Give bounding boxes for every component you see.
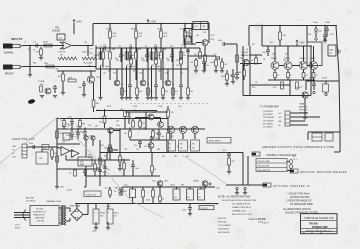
power +24V TR1 bbox=[73, 20, 82, 24]
ground note a bbox=[235, 187, 239, 195]
label 100Ku bbox=[106, 29, 113, 31]
triangle TR9b bbox=[72, 150, 80, 157]
svg-text:1K0: 1K0 bbox=[165, 91, 168, 93]
wire volume drop bbox=[87, 45, 88, 56]
resistor emitter Q2 bbox=[287, 70, 293, 81]
transistor TR16 bbox=[144, 136, 154, 153]
svg-text:100u: 100u bbox=[318, 31, 322, 33]
wire diode drop bbox=[86, 140, 93, 157]
wire q12 join bbox=[279, 65, 310, 67]
box MOD SER bbox=[207, 138, 231, 144]
resistor pac 3 bbox=[139, 118, 145, 129]
svg-text:2: RESISTOR MADE UP: 2: RESISTOR MADE UP bbox=[286, 200, 312, 203]
wire TR2 up bbox=[116, 69, 118, 80]
wire pa main low rail bbox=[100, 152, 243, 154]
wire stage2 col B bbox=[135, 38, 136, 80]
label pa extra2 bbox=[62, 142, 91, 157]
wire pa v100 bbox=[99, 140, 101, 186]
svg-text:10u: 10u bbox=[129, 45, 132, 47]
svg-text:2N3055: 2N3055 bbox=[310, 58, 316, 60]
wire driver to Q bbox=[249, 63, 262, 65]
resistor psu x1 bbox=[159, 196, 165, 204]
svg-text:COM: COM bbox=[154, 51, 159, 53]
wire psu left drop bbox=[120, 187, 124, 196]
wire NFB down bbox=[85, 166, 87, 176]
svg-text:+40V: +40V bbox=[299, 42, 305, 45]
svg-text:4700u: 4700u bbox=[114, 213, 119, 215]
wire pa mid rail bbox=[66, 159, 112, 161]
wire emitter join bbox=[268, 79, 315, 81]
svg-text:100Ku: 100Ku bbox=[106, 29, 113, 31]
label mains V bbox=[15, 225, 21, 230]
ground stage1 E bbox=[135, 98, 139, 100]
svg-text:TR6 2N5088: TR6 2N5088 bbox=[263, 117, 274, 119]
label B47 bbox=[105, 187, 121, 190]
transistor TR8A bbox=[302, 92, 308, 98]
resistor stage3 D bbox=[180, 52, 186, 59]
wire TRO3 down bbox=[194, 133, 196, 152]
resistor pa u1 bbox=[63, 119, 69, 130]
resistor pre z1 bbox=[98, 48, 104, 68]
ground R2 bbox=[39, 58, 43, 60]
label smudges gnd row bbox=[107, 106, 181, 108]
svg-text:10u: 10u bbox=[43, 147, 46, 149]
svg-text:Q1 MJ2955: Q1 MJ2955 bbox=[263, 111, 273, 113]
resistor psu b bbox=[142, 187, 155, 204]
svg-text:3K9: 3K9 bbox=[167, 60, 170, 62]
label psu extra bbox=[124, 185, 185, 187]
transistor TRO1 bbox=[167, 126, 174, 133]
box spk wiring bbox=[256, 159, 287, 172]
svg-text:100u: 100u bbox=[71, 136, 75, 138]
resistor pa u2 bbox=[79, 119, 85, 130]
wire sp h48b bbox=[184, 47, 200, 49]
svg-text:TRANSISTOR: TRANSISTOR bbox=[33, 214, 45, 217]
svg-text:2-6273: 2-6273 bbox=[262, 223, 269, 225]
svg-text:*: * bbox=[73, 147, 74, 149]
svg-text:5% CARBON FILM: 5% CARBON FILM bbox=[232, 203, 250, 206]
wire rm bottom drop bbox=[307, 132, 309, 140]
transistor TR2 bbox=[87, 76, 100, 83]
label BRIGHT bbox=[5, 74, 14, 76]
svg-text:C20: C20 bbox=[76, 126, 79, 128]
resistor pac 9 bbox=[151, 162, 157, 176]
resistor 4K7 spk bbox=[228, 158, 235, 171]
jack monitor bbox=[290, 169, 298, 173]
ground stage1 C bbox=[120, 98, 124, 100]
wire mains 1 bbox=[14, 212, 30, 214]
capacitor sp d1 bbox=[182, 48, 190, 56]
label 0.47 a bbox=[177, 146, 179, 148]
wire splitter drop bbox=[191, 23, 192, 45]
wire stage2 col D bbox=[155, 48, 157, 85]
svg-text:TR10A: TR10A bbox=[38, 80, 45, 83]
capacitor C51 1000u bbox=[198, 189, 205, 200]
capacitor TR10A bbox=[53, 85, 57, 93]
svg-text:D2 1N4001: D2 1N4001 bbox=[263, 127, 273, 129]
svg-text:150: 150 bbox=[88, 125, 91, 127]
svg-text:Q2 2N3055: Q2 2N3055 bbox=[263, 114, 273, 116]
capacitor pac 8 bbox=[131, 160, 139, 176]
svg-text:15K: 15K bbox=[163, 33, 167, 35]
wire bus left drop bbox=[92, 24, 94, 46]
wire pa input bbox=[27, 146, 57, 148]
wire xfmr out a bbox=[66, 208, 70, 212]
wire preamp rail 2 bbox=[96, 47, 188, 49]
text notes right bbox=[283, 193, 318, 215]
svg-text:10u: 10u bbox=[107, 169, 110, 171]
wire pa left drop top bbox=[56, 119, 58, 130]
wire input drop bbox=[29, 45, 30, 74]
wire driver rail bbox=[230, 73, 239, 80]
transistor TR6 driver bbox=[241, 46, 249, 66]
svg-text:234: 234 bbox=[192, 148, 195, 150]
wire diode top rail bbox=[57, 143, 80, 145]
label 470R rm bbox=[322, 78, 327, 80]
wire spk h152 bbox=[334, 151, 340, 153]
wire stage1 col A bbox=[100, 48, 102, 97]
label TR1 bbox=[52, 28, 61, 33]
wire TR1 base in bbox=[52, 45, 64, 47]
svg-text:1000u: 1000u bbox=[170, 185, 175, 187]
svg-text:1M2: 1M2 bbox=[55, 69, 58, 71]
wire driver drop bbox=[236, 44, 238, 73]
wire TR1 out bbox=[72, 45, 93, 47]
capacitor C50a 1000u bbox=[173, 189, 180, 200]
label rail values 2 bbox=[104, 51, 182, 53]
svg-text:4K7: 4K7 bbox=[252, 44, 255, 46]
label out extra bbox=[246, 44, 286, 62]
resistor stage1 C bbox=[121, 88, 127, 95]
svg-text:100n: 100n bbox=[78, 87, 82, 89]
svg-text:ALL RESISTORS 1/2W 5%: ALL RESISTORS 1/2W 5% bbox=[283, 208, 311, 211]
wire pa 137 rail bbox=[130, 139, 166, 141]
svg-text:R44: R44 bbox=[104, 156, 107, 158]
svg-text:TR6905: TR6905 bbox=[241, 52, 249, 54]
wire psu bus bbox=[75, 203, 218, 205]
label pots extra bbox=[58, 52, 91, 54]
capacitor pa a bbox=[66, 128, 74, 141]
label INPUTS bbox=[11, 37, 22, 41]
svg-text:+27V: +27V bbox=[210, 35, 215, 37]
svg-text:160R: 160R bbox=[325, 22, 330, 24]
wire psu top rail bbox=[122, 186, 215, 188]
svg-text:10K: 10K bbox=[138, 33, 142, 35]
ground TR10A a bbox=[40, 96, 44, 98]
svg-text:63V: 63V bbox=[187, 197, 190, 199]
svg-text:4u7: 4u7 bbox=[102, 161, 105, 163]
label 100u tr bbox=[313, 22, 318, 24]
resistor pre y1 bbox=[126, 55, 132, 68]
svg-text:2W: 2W bbox=[329, 53, 332, 55]
capacitor C9 bypass box bbox=[193, 22, 208, 30]
svg-text:100u: 100u bbox=[262, 52, 266, 54]
wire out h55 bbox=[250, 54, 262, 56]
wire right big drop bbox=[307, 26, 340, 133]
box HUM BAL bbox=[199, 206, 214, 210]
wire output top bus bbox=[249, 25, 337, 27]
resistor sp d4 bbox=[221, 58, 227, 70]
wire stage1 col B bbox=[109, 38, 110, 80]
transistor TR10A bbox=[45, 88, 51, 94]
resistor pa v110 bbox=[104, 145, 111, 151]
resistor pa 4K7b bbox=[167, 133, 175, 153]
svg-text:EXCEPT AS NOTED: RESISTORS: EXCEPT AS NOTED: RESISTORS bbox=[222, 199, 257, 202]
svg-text:1000: 1000 bbox=[174, 197, 178, 199]
label 68R 1K0 bbox=[143, 112, 155, 130]
resistor TR10A bbox=[40, 86, 43, 92]
label pre row3 bbox=[108, 71, 161, 73]
capacitor C30 bbox=[29, 143, 35, 149]
svg-text:+42V: +42V bbox=[329, 34, 334, 36]
ground bias cap bbox=[231, 82, 235, 84]
wire output left drop bbox=[248, 26, 250, 47]
svg-text:* : ADJUST FOR 40mV: * : ADJUST FOR 40mV bbox=[286, 193, 310, 196]
svg-text:100n: 100n bbox=[66, 135, 70, 137]
svg-text:0R5: 0R5 bbox=[174, 156, 177, 158]
ground stage3 D bbox=[179, 98, 183, 100]
wire driver link bbox=[225, 43, 237, 45]
svg-text:4x25: 4x25 bbox=[124, 185, 128, 187]
wire strip out1 bbox=[290, 112, 308, 114]
wire strip out3 bbox=[290, 120, 305, 122]
label 160R tr bbox=[325, 22, 330, 24]
label 470Ku bbox=[131, 29, 138, 31]
svg-text:10u: 10u bbox=[103, 73, 106, 75]
svg-text:15K: 15K bbox=[112, 33, 116, 35]
svg-text:CERAMIC 50V: CERAMIC 50V bbox=[232, 210, 246, 213]
svg-text:OUT: OUT bbox=[278, 117, 282, 119]
wire TR1 collector up bbox=[73, 24, 75, 35]
svg-text:COM: COM bbox=[104, 51, 109, 53]
plug mains bbox=[23, 210, 26, 221]
wire TR3 up bbox=[142, 69, 144, 80]
capacitor sp d3 bbox=[214, 54, 220, 60]
resistor stage1 D bbox=[129, 52, 135, 59]
label smudges rail3 bbox=[103, 73, 183, 75]
wire TRO1 down bbox=[170, 133, 172, 152]
svg-text:BRIDGE 4A: BRIDGE 4A bbox=[70, 205, 81, 208]
svg-text:1K5: 1K5 bbox=[98, 54, 101, 56]
svg-text:COM: COM bbox=[87, 66, 92, 68]
label master block bbox=[299, 103, 308, 115]
capacitor pa b bbox=[76, 128, 80, 141]
box TRO3 part bbox=[191, 140, 200, 151]
svg-text:10u: 10u bbox=[129, 51, 132, 53]
wire bass line bbox=[30, 66, 96, 68]
svg-text:4K7: 4K7 bbox=[95, 126, 98, 128]
svg-text:1M: 1M bbox=[90, 53, 93, 55]
label monitor spk bbox=[300, 171, 347, 174]
svg-text:2N3565: 2N3565 bbox=[52, 31, 61, 33]
wire spk link1 bbox=[287, 161, 289, 163]
wire pa mid2 drop bbox=[104, 160, 106, 176]
wire pa 118 rail bbox=[125, 112, 168, 118]
label tr1 area bbox=[84, 42, 92, 51]
resistor bias bbox=[221, 70, 228, 83]
wire TRO2 down bbox=[182, 133, 184, 152]
svg-text:C24: C24 bbox=[136, 149, 139, 151]
svg-text:8R2: 8R2 bbox=[252, 87, 255, 89]
transistor Q3 power bbox=[300, 46, 308, 70]
wire b47 drop bbox=[109, 187, 112, 198]
resistor stage3 B bbox=[160, 49, 167, 59]
ground stage1 A bbox=[98, 98, 102, 100]
svg-text:470Ku: 470Ku bbox=[131, 29, 138, 31]
wire xfmr out b bbox=[66, 218, 70, 221]
svg-text:+40: +40 bbox=[278, 113, 281, 115]
svg-text:.47: .47 bbox=[290, 75, 292, 77]
svg-text:100u: 100u bbox=[116, 125, 120, 127]
transistor TR5 bbox=[202, 39, 215, 46]
wire stage3 mid rail bbox=[147, 68, 173, 70]
svg-text:117V: 117V bbox=[15, 225, 20, 227]
transistor TR8 bbox=[0, 0, 1, 1]
resistor pa 1K5 bbox=[152, 130, 159, 141]
capacitor elec pa bbox=[42, 145, 49, 150]
ground out 325 bbox=[323, 41, 327, 43]
terminal strip pa bbox=[285, 111, 290, 126]
resistor tr2 e bbox=[92, 100, 100, 112]
svg-text:4n7: 4n7 bbox=[115, 58, 118, 60]
transistor Q4 power bbox=[310, 46, 318, 70]
svg-text:220: 220 bbox=[144, 146, 147, 148]
label volume com bbox=[87, 66, 92, 68]
svg-text:Q5: Q5 bbox=[285, 54, 287, 56]
wire C41 top bbox=[107, 204, 109, 210]
svg-text:XX IN DATES: XX IN DATES bbox=[218, 224, 231, 227]
resistor stage1 E bbox=[136, 48, 142, 97]
label 4K7 pa bbox=[156, 138, 159, 140]
ground tr2 c bbox=[82, 95, 86, 97]
capacitor C50 1000u bbox=[187, 189, 194, 200]
wire stage2 mid rail bbox=[122, 68, 148, 70]
svg-text:MASTER: MASTER bbox=[299, 106, 308, 109]
resistor pa low bbox=[119, 153, 125, 169]
resistor R4 bbox=[44, 63, 54, 68]
label pwr in pins bbox=[12, 146, 17, 159]
svg-text:10u: 10u bbox=[182, 52, 185, 54]
svg-text:DWG-NO.TWR-200-VER-1-76: DWG-NO.TWR-200-VER-1-76 bbox=[306, 230, 332, 232]
svg-text:10u: 10u bbox=[103, 45, 106, 47]
resistor stage3 C bbox=[172, 88, 178, 95]
svg-text:T.V POWER AMP: T.V POWER AMP bbox=[260, 106, 279, 109]
resistor stage2 D bbox=[155, 52, 161, 59]
capacitor tr2 c bbox=[78, 81, 86, 94]
capacitor stage2 D bbox=[154, 85, 158, 97]
crease left bbox=[0, 117, 58, 163]
transistor TR14b bbox=[75, 132, 95, 141]
svg-text:4K25: 4K25 bbox=[100, 145, 104, 147]
svg-text:AIR USA: AIR USA bbox=[26, 197, 34, 200]
svg-text:1M: 1M bbox=[36, 52, 39, 54]
ground stage2 A bbox=[124, 98, 128, 100]
resistor emitter Q4 bbox=[312, 70, 318, 81]
dashed boundary bbox=[130, 103, 210, 105]
label thermal bbox=[46, 200, 62, 203]
svg-text:.47: .47 bbox=[177, 146, 179, 148]
svg-text:C40: C40 bbox=[283, 60, 286, 62]
label pa vals2 bbox=[70, 157, 92, 159]
resistor out x2 bbox=[238, 64, 245, 81]
svg-text:CAPACITORS IN uF: CAPACITORS IN uF bbox=[232, 206, 252, 209]
connector box rm1 bbox=[312, 133, 322, 141]
capacitor 100n psu bbox=[182, 204, 192, 214]
mark plus right bbox=[345, 48, 347, 52]
svg-text:50u: 50u bbox=[206, 65, 209, 67]
wire stage2 col C bbox=[147, 48, 149, 97]
wire out mid drop bbox=[242, 59, 244, 96]
junction pa u bbox=[56, 118, 146, 130]
ground rm bbox=[303, 98, 307, 120]
svg-text:RED+BLU 8R: RED+BLU 8R bbox=[258, 166, 270, 168]
wire tr2 emitter bbox=[93, 83, 95, 101]
resistor pa 1K2 bbox=[128, 114, 134, 128]
resistor stage1 B bbox=[109, 49, 116, 59]
svg-text:4.50 RELD: 4.50 RELD bbox=[26, 201, 36, 203]
svg-text:4K1: 4K1 bbox=[66, 124, 69, 126]
resistor driver bbox=[236, 55, 244, 62]
wire strip out4 bbox=[290, 124, 308, 126]
transistor TR3 bbox=[140, 80, 150, 86]
resistor R14 collector bbox=[184, 24, 192, 49]
label -39V bbox=[96, 110, 101, 112]
resistor R30 bbox=[279, 25, 287, 46]
label 4K7 out bbox=[270, 42, 274, 44]
label 1M pots bbox=[60, 53, 93, 57]
wire out right drop bbox=[310, 46, 312, 96]
crease right bbox=[58, 117, 163, 218]
jack optional bbox=[263, 183, 271, 187]
label 100u rm bbox=[309, 78, 313, 80]
wire stage1 col C bbox=[121, 48, 123, 97]
svg-text:1K2: 1K2 bbox=[224, 64, 227, 66]
wire splitter rail bbox=[188, 55, 216, 57]
svg-text:+24V: +24V bbox=[76, 21, 82, 24]
svg-text:25V: 25V bbox=[198, 197, 201, 199]
svg-text:OPTIONAL MONITOR SPEAKER: OPTIONAL MONITOR SPEAKER bbox=[300, 171, 347, 174]
wire pa v110 bbox=[109, 131, 111, 160]
svg-text:4K7: 4K7 bbox=[60, 133, 63, 135]
wire out v250 full bbox=[249, 46, 251, 96]
wire out mid h85 bbox=[250, 82, 302, 89]
wire pac h131 bbox=[113, 131, 120, 151]
box TRO2 part bbox=[179, 140, 188, 151]
svg-text:NORMAL: NORMAL bbox=[4, 52, 15, 55]
svg-text:2N3055: 2N3055 bbox=[300, 58, 306, 60]
svg-text:24270: 24270 bbox=[258, 222, 263, 224]
wire tr2 top bbox=[90, 70, 91, 76]
transistor TR1 symbol bbox=[60, 42, 72, 49]
jack internal spk bbox=[252, 152, 260, 156]
svg-text:+24V: +24V bbox=[150, 20, 156, 24]
capacitor stage1 in bbox=[103, 45, 106, 51]
wire psu tr13 drop bbox=[205, 183, 211, 189]
resistor R2 shunt bbox=[36, 47, 42, 57]
resistor pa left x bbox=[51, 156, 58, 162]
resistor splitter bbox=[185, 30, 192, 38]
wire pac v152t bbox=[151, 153, 153, 163]
capacitor C40 4700u bbox=[93, 209, 105, 224]
capacitor stage1 D bbox=[128, 85, 132, 97]
ground stage3 C bbox=[171, 98, 175, 100]
diode D5 bbox=[308, 26, 318, 38]
wire right mid rail bbox=[306, 80, 339, 82]
svg-text:B+ 47: B+ 47 bbox=[105, 188, 110, 190]
ground stage2 D bbox=[154, 98, 158, 100]
wire pac h160b bbox=[112, 159, 130, 161]
wire pac h176b bbox=[130, 175, 160, 177]
